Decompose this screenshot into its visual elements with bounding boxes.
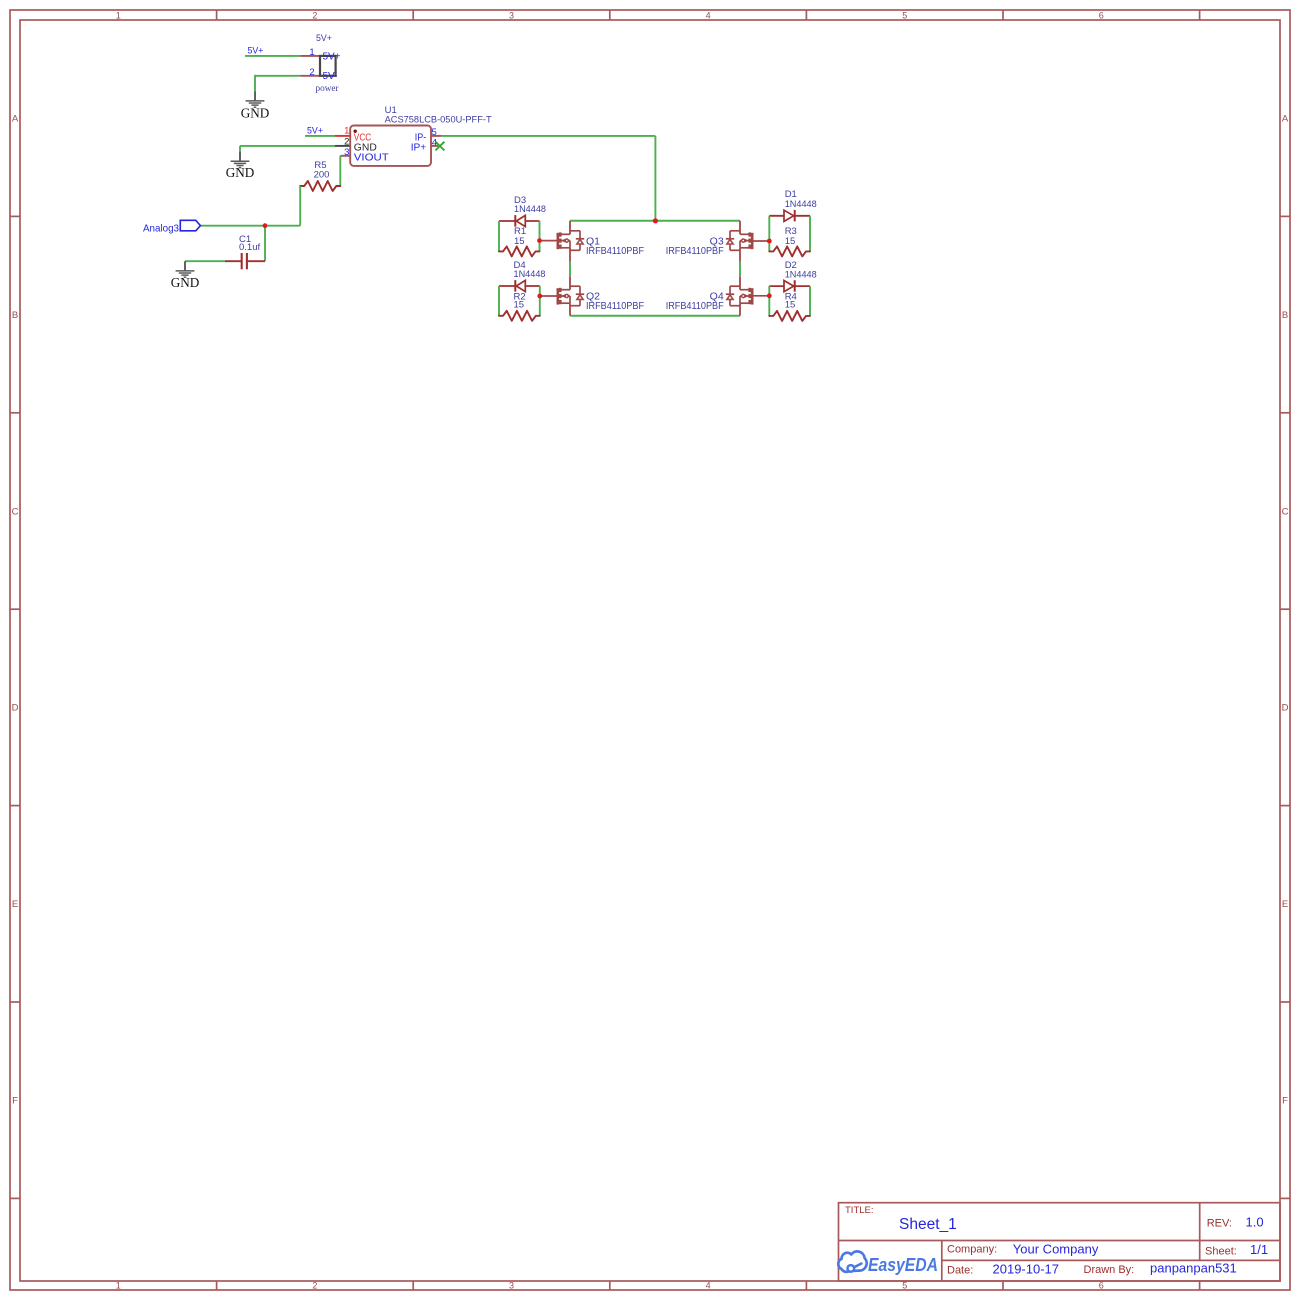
svg-text:3: 3	[509, 11, 514, 21]
resistor R3	[769, 226, 810, 256]
resistor R2	[499, 292, 540, 321]
junction node	[263, 223, 268, 228]
svg-text:5: 5	[902, 1281, 907, 1291]
ground GND2	[226, 152, 255, 180]
diode D2	[769, 260, 816, 292]
svg-text:VIOUT: VIOUT	[354, 151, 390, 163]
wire bottom bus	[570, 315, 740, 317]
EasyEDA logo	[838, 1251, 938, 1274]
gate wire R4 junction	[752, 293, 771, 298]
svg-text:ACS758LCB-050U-PFF-T: ACS758LCB-050U-PFF-T	[385, 114, 492, 125]
U1 pin 5 IP-	[431, 127, 441, 138]
svg-text:2019-10-17: 2019-10-17	[993, 1262, 1060, 1277]
IC U1 ACS758LCB-050U-PFF-T	[350, 105, 492, 166]
svg-text:3: 3	[344, 147, 349, 158]
gate wire R3 junction	[752, 239, 771, 244]
svg-text:Date:: Date:	[947, 1265, 973, 1277]
power connector pin 2	[300, 67, 320, 78]
wire loop of D4/R2	[499, 286, 540, 316]
svg-text:2: 2	[344, 137, 349, 148]
svg-text:3: 3	[509, 1281, 514, 1291]
diode D3	[499, 195, 546, 227]
svg-text:D: D	[12, 703, 19, 714]
wire	[339, 156, 341, 186]
svg-text:2: 2	[309, 67, 314, 78]
net port Analog3	[143, 220, 200, 234]
svg-text:E: E	[1282, 899, 1288, 910]
svg-text:1.0: 1.0	[1246, 1215, 1264, 1230]
svg-text:1: 1	[116, 1281, 121, 1291]
svg-text:5V+: 5V+	[323, 51, 341, 62]
wire loop of D3/R1	[499, 221, 540, 251]
wire loop of D1/R3	[769, 216, 810, 252]
svg-text:1N4448: 1N4448	[514, 204, 546, 215]
svg-text:4: 4	[706, 1281, 711, 1291]
svg-text:IRFB4110PBF: IRFB4110PBF	[586, 301, 644, 312]
svg-text:Sheet:: Sheet:	[1205, 1246, 1237, 1258]
svg-text:15: 15	[785, 299, 796, 310]
wire Q3-Q4 link	[739, 261, 741, 276]
svg-text:1: 1	[309, 47, 314, 58]
transistor Q2	[558, 276, 644, 316]
svg-text:panpanpan531: panpanpan531	[1150, 1261, 1237, 1276]
wire top bus	[570, 220, 740, 222]
wire	[240, 146, 335, 152]
svg-text:GND: GND	[241, 106, 270, 121]
U1 pin 4 IP+ with no-connect flag	[431, 137, 444, 150]
date field	[947, 1262, 1059, 1277]
svg-text:5: 5	[432, 127, 437, 138]
svg-text:1N4448: 1N4448	[785, 199, 817, 210]
svg-text:15: 15	[785, 236, 796, 247]
resistor R1	[499, 226, 540, 256]
svg-text:Company:: Company:	[947, 1244, 997, 1256]
transistor Q3	[666, 221, 753, 261]
capacitor C1	[225, 234, 265, 269]
svg-text:200: 200	[314, 170, 330, 181]
wire	[264, 226, 266, 262]
power connector pin 1	[300, 47, 320, 58]
resistor R4	[769, 292, 810, 321]
svg-text:4: 4	[706, 11, 711, 21]
svg-text:6: 6	[1099, 11, 1104, 21]
svg-text:1N4448: 1N4448	[514, 269, 546, 280]
wire loop of D2/R4	[769, 286, 810, 316]
rev field	[1207, 1215, 1264, 1230]
svg-text:0.1uf: 0.1uf	[239, 242, 260, 253]
svg-text:IRFB4110PBF: IRFB4110PBF	[666, 301, 724, 312]
svg-text:TITLE:: TITLE:	[845, 1205, 874, 1216]
U1 pin 2 GND	[335, 137, 350, 148]
wire IP- to bridge	[441, 136, 655, 221]
svg-text:EasyEDA: EasyEDA	[868, 1255, 938, 1275]
gate wire R2 junction	[537, 294, 557, 299]
svg-text:5V+: 5V+	[316, 33, 332, 43]
svg-text:15: 15	[514, 299, 525, 310]
svg-text:C: C	[12, 506, 19, 517]
svg-text:GND: GND	[226, 165, 255, 180]
transistor Q4	[666, 276, 753, 316]
svg-text:F: F	[12, 1096, 18, 1107]
diode D4	[499, 260, 546, 292]
svg-text:5: 5	[902, 11, 907, 21]
svg-text:IRFB4110PBF: IRFB4110PBF	[666, 246, 724, 257]
diode D1	[769, 189, 816, 221]
resistor R5	[300, 160, 340, 191]
svg-text:REV:: REV:	[1207, 1218, 1232, 1230]
svg-text:A: A	[1282, 114, 1289, 125]
wire	[245, 55, 300, 57]
svg-text:5V+: 5V+	[248, 46, 264, 56]
sheet field	[1205, 1242, 1268, 1258]
transistor Q1	[558, 221, 644, 261]
wire	[185, 260, 225, 262]
svg-text:C: C	[1282, 506, 1289, 517]
wire	[200, 186, 300, 226]
svg-text:F: F	[1282, 1096, 1288, 1107]
svg-text:IRFB4110PBF: IRFB4110PBF	[586, 246, 644, 257]
svg-text:6: 6	[1099, 1281, 1104, 1291]
svg-text:A: A	[12, 114, 19, 125]
junction node bridge top	[653, 218, 658, 223]
gate wire R1 junction	[537, 238, 558, 243]
svg-text:1/1: 1/1	[1250, 1242, 1268, 1257]
svg-text:1: 1	[344, 126, 349, 137]
svg-text:5V+: 5V+	[307, 126, 323, 136]
svg-text:Sheet_1: Sheet_1	[899, 1216, 957, 1233]
svg-text:Drawn By:: Drawn By:	[1084, 1264, 1135, 1276]
svg-text:E: E	[12, 899, 18, 910]
svg-text:Analog3: Analog3	[143, 223, 179, 235]
wire	[255, 75, 300, 91]
svg-text:IP+: IP+	[411, 142, 427, 154]
title block	[839, 1203, 1281, 1281]
svg-text:1: 1	[116, 11, 121, 21]
svg-text:D: D	[1282, 703, 1289, 714]
svg-text:2: 2	[312, 11, 317, 21]
U1 pin 3 VIOUT	[340, 147, 350, 158]
svg-text:1N4448: 1N4448	[785, 269, 817, 280]
svg-text:B: B	[1282, 310, 1288, 321]
title text	[845, 1205, 957, 1233]
svg-text:5V-: 5V-	[323, 71, 338, 82]
svg-text:GND: GND	[171, 275, 200, 290]
svg-text:power: power	[316, 83, 339, 93]
svg-text:15: 15	[514, 236, 525, 247]
wire	[305, 135, 335, 137]
wire Q1-Q2 link	[569, 261, 571, 276]
U1 pin 1 VCC	[335, 126, 350, 137]
svg-text:Your Company: Your Company	[1013, 1242, 1099, 1257]
ground GND1	[241, 91, 270, 120]
company field	[947, 1242, 1099, 1257]
drawn by field	[1084, 1261, 1237, 1277]
svg-text:B: B	[12, 310, 18, 321]
svg-text:2: 2	[312, 1281, 317, 1291]
ground GND3	[171, 261, 200, 290]
connector CN power	[316, 33, 341, 93]
